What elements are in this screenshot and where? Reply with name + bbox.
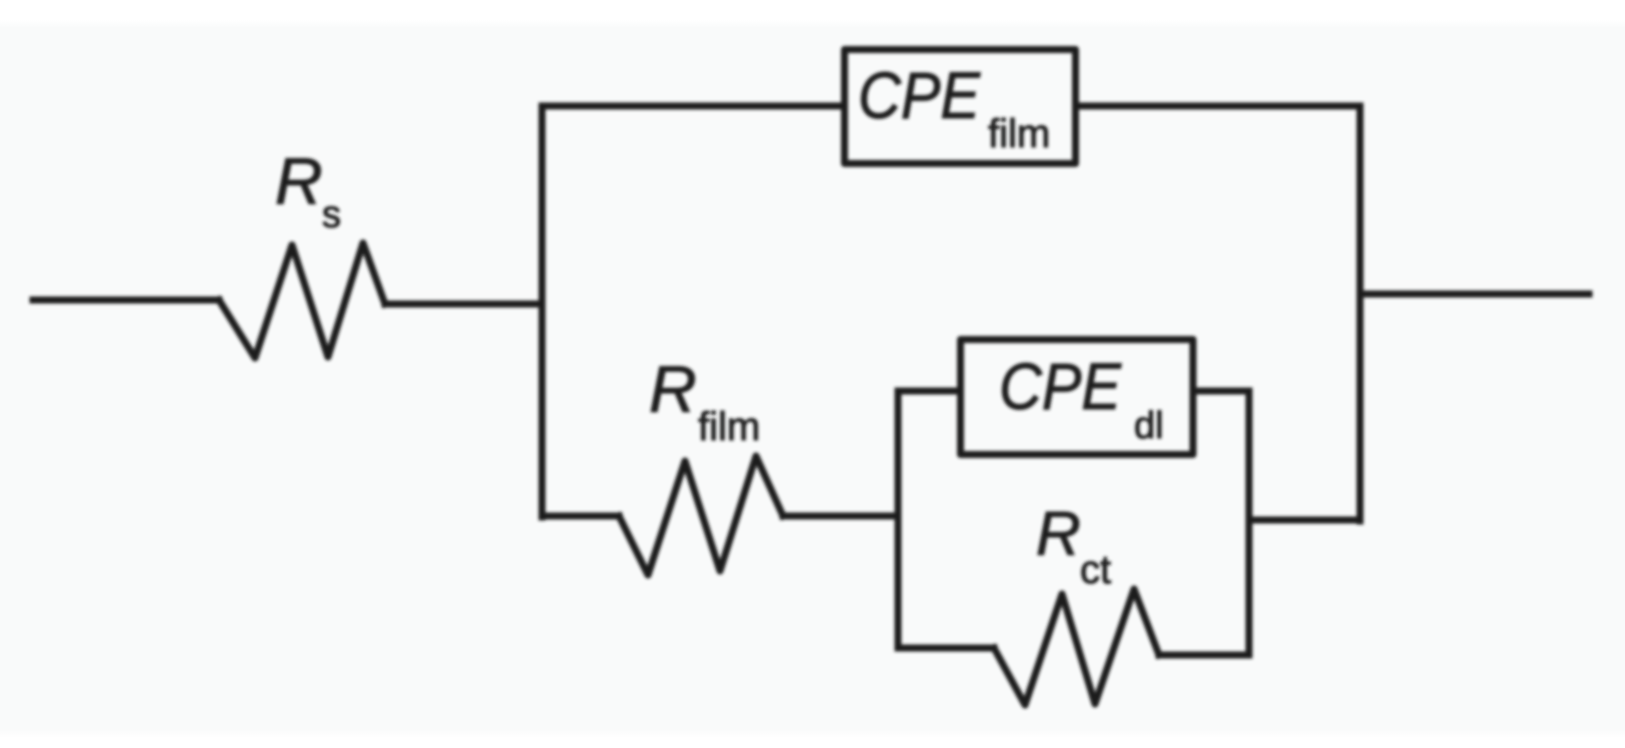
wire inner bottom left: [898, 645, 994, 652]
wire outer right vertical: [1357, 106, 1364, 521]
CPE element CPEfilm box: [845, 50, 1076, 164]
wire bottom branch left: [542, 513, 619, 520]
wire inner top left: [898, 388, 960, 395]
resistor Rs zigzag: [219, 243, 385, 358]
wire inner bottom right: [1159, 652, 1249, 659]
wire output lead: [1360, 291, 1589, 298]
svg-text:film: film: [698, 405, 760, 449]
resistor Rct zigzag: [994, 589, 1159, 705]
svg-text:R: R: [649, 352, 697, 426]
svg-text:R: R: [275, 144, 323, 218]
svg-text:film: film: [988, 112, 1050, 156]
svg-text:ct: ct: [1080, 548, 1111, 592]
wire top branch left: [542, 103, 841, 110]
svg-text:CPE: CPE: [858, 58, 981, 132]
node A vertical bus: [539, 106, 546, 517]
wire Rs to node A: [385, 301, 542, 308]
resistor Rfilm zigzag: [619, 456, 783, 575]
node C inner right vertical: [1246, 391, 1253, 655]
wire inner top right: [1193, 388, 1249, 395]
wire link inner to outer: [1249, 517, 1360, 524]
svg-text:dl: dl: [1134, 405, 1164, 447]
node B inner left vertical: [895, 391, 902, 648]
wire Rfilm to node B: [783, 513, 898, 520]
svg-text:R: R: [1036, 500, 1081, 569]
wire input lead: [33, 297, 219, 304]
wire top branch right: [1079, 103, 1360, 110]
svg-text:CPE: CPE: [999, 349, 1122, 423]
CPE element CPEdl box: [961, 340, 1194, 455]
svg-text:s: s: [322, 194, 341, 236]
